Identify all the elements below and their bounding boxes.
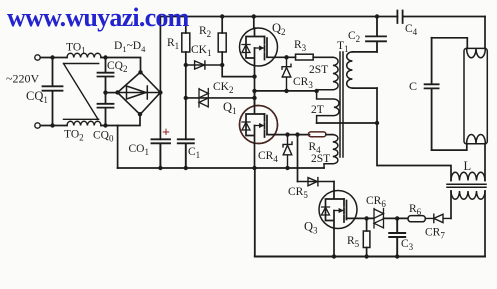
inductor TO1 bbox=[67, 53, 101, 57]
fluorescent tube bbox=[464, 48, 487, 143]
diode CK1 bbox=[186, 64, 222, 66]
winding 2T bbox=[317, 91, 339, 123]
inductor L core bbox=[447, 184, 486, 187]
wire C4 to lamp bbox=[484, 17, 486, 49]
bridge node bottom bbox=[138, 112, 142, 116]
lamp filament bottom bbox=[467, 135, 486, 144]
svg-text:C4: C4 bbox=[405, 23, 418, 37]
diode CR5 bbox=[298, 181, 335, 183]
winding T1 primary bbox=[347, 52, 353, 88]
diac CR6 bbox=[374, 209, 384, 229]
capacitor C3 bbox=[389, 218, 405, 256]
node R5 top bbox=[364, 216, 368, 220]
node Q1 source bus bbox=[252, 166, 256, 170]
bridge rectifier D1~D4 bbox=[118, 72, 161, 115]
inductor L winding top bbox=[451, 172, 485, 180]
capacitor CQ0 bbox=[98, 93, 114, 126]
capacitor CQ2 bbox=[98, 58, 114, 93]
capacitor CO1 electrolytic bbox=[152, 139, 171, 168]
node CK1 left bbox=[184, 63, 188, 67]
wire R1 column bbox=[185, 65, 187, 139]
node winding tap bbox=[314, 89, 318, 93]
wire junction to output bbox=[377, 88, 451, 180]
wire Q3 drain bbox=[333, 182, 335, 191]
svg-text:L: L bbox=[464, 159, 472, 173]
zener CR3 bbox=[282, 57, 291, 91]
node CO1 bus bbox=[158, 166, 162, 170]
node CR3 bottom bbox=[284, 89, 288, 93]
svg-text:2ST: 2ST bbox=[311, 153, 330, 165]
wire Q2 source to midpoint bbox=[254, 66, 256, 106]
wire CR5 branch bbox=[297, 135, 299, 182]
wire bottom input bbox=[40, 125, 67, 127]
node Q2 gate bbox=[284, 55, 288, 59]
capacitor CQ1 bbox=[43, 58, 63, 126]
bridge node top bbox=[138, 70, 142, 74]
bridge node left bbox=[115, 90, 119, 94]
wire plus riser bbox=[159, 17, 161, 140]
wire 2T bottom crossing bbox=[317, 122, 377, 124]
svg-text:R2: R2 bbox=[199, 25, 211, 39]
svg-text:D1~D4: D1~D4 bbox=[114, 40, 146, 54]
svg-text:TO2: TO2 bbox=[64, 129, 84, 143]
wire top to bridge bbox=[101, 58, 141, 73]
svg-text:R3: R3 bbox=[294, 39, 307, 53]
mosfet Q1 bbox=[240, 106, 278, 144]
choke coupling link bbox=[64, 64, 99, 120]
resistor R1 bbox=[185, 17, 187, 34]
watermark www.wuyazi.com bbox=[7, 5, 189, 31]
node midpoint bbox=[252, 89, 256, 93]
zener CR4 bbox=[283, 135, 292, 168]
svg-text:CO1: CO1 bbox=[129, 143, 149, 157]
node CQ mid bbox=[103, 90, 107, 94]
node Q2 source bbox=[252, 74, 256, 78]
input terminal top bbox=[35, 55, 40, 60]
winding 2ST upper bbox=[317, 57, 338, 91]
wire top input bbox=[40, 57, 67, 59]
wire R4 to winding bbox=[326, 134, 333, 136]
mosfet Q2 bbox=[240, 28, 278, 66]
wire primary top lead bbox=[352, 51, 377, 53]
diac CK2 bbox=[186, 97, 255, 99]
wire Q3 gate line bbox=[347, 217, 408, 219]
node Q3 source rail bbox=[332, 254, 336, 258]
svg-text:C2: C2 bbox=[348, 30, 360, 44]
wire primary bottom lead bbox=[352, 87, 377, 89]
wire Q3 source bbox=[333, 228, 335, 256]
svg-text:+: + bbox=[162, 126, 170, 141]
wire C bottom to lamp bbox=[432, 144, 467, 150]
capacitor C1 bbox=[178, 139, 194, 168]
node CK1 right bbox=[220, 63, 224, 67]
transformer T1 core bbox=[340, 52, 343, 157]
wire ground bus bbox=[118, 167, 324, 169]
svg-text:Q2: Q2 bbox=[272, 21, 286, 37]
node CR4 top bbox=[285, 132, 289, 136]
wire Q1 source bbox=[254, 143, 256, 168]
inductor L winding bottom bbox=[451, 191, 485, 199]
diode CR7 bbox=[425, 214, 451, 222]
capacitor C resonant bbox=[425, 38, 439, 150]
node CR5 branch top bbox=[295, 132, 299, 136]
svg-text:C3: C3 bbox=[401, 238, 414, 252]
wire Q2 gate bbox=[267, 56, 296, 58]
resistor R6 bbox=[408, 216, 426, 222]
wire L bottom-left to CR7 bbox=[450, 191, 452, 218]
node CK2 right bbox=[252, 96, 256, 100]
svg-text:CK1: CK1 bbox=[191, 44, 211, 58]
resistor R3 bbox=[296, 54, 314, 60]
svg-text:CK2: CK2 bbox=[213, 81, 233, 95]
wire top bus bbox=[160, 16, 397, 18]
node bottom CQ branch bbox=[103, 123, 107, 127]
input terminal bottom bbox=[35, 123, 40, 128]
node R5 rail bbox=[364, 254, 368, 258]
wire bottom to bridge bbox=[101, 115, 140, 126]
svg-text:Q3: Q3 bbox=[304, 220, 318, 236]
svg-text:CR6: CR6 bbox=[366, 195, 386, 209]
node C3 rail bbox=[395, 254, 399, 258]
node C2 top bbox=[375, 14, 379, 18]
lamp filament top bbox=[467, 48, 486, 57]
svg-text:C1: C1 bbox=[188, 146, 200, 160]
node top CQ2 branch bbox=[103, 55, 107, 59]
wire CQ to bridge left bbox=[106, 92, 118, 94]
mosfet Q3 bbox=[319, 191, 357, 229]
svg-text:2ST: 2ST bbox=[309, 64, 328, 76]
svg-text:CR4: CR4 bbox=[258, 150, 278, 164]
capacitor C4 bbox=[397, 11, 485, 24]
node top CQ1 bbox=[50, 55, 54, 59]
node bottom CQ1 bbox=[50, 123, 54, 127]
svg-text:CQ0: CQ0 bbox=[93, 130, 114, 144]
bridge node right bbox=[158, 90, 162, 94]
resistor R5 bbox=[366, 218, 368, 231]
winding 2ST lower bbox=[324, 135, 338, 168]
wire Q2 drain bbox=[253, 17, 255, 29]
svg-text:R1: R1 bbox=[167, 37, 179, 51]
wire R3 to winding bbox=[313, 56, 333, 58]
node Q2 drain top bbox=[252, 14, 256, 18]
node C3 top bbox=[395, 216, 399, 220]
wire lamp bottom-right pin bbox=[484, 144, 486, 181]
node CR4 bus bbox=[285, 166, 289, 170]
svg-text:CR5: CR5 bbox=[288, 186, 308, 200]
svg-text:~220V: ~220V bbox=[6, 72, 39, 86]
wire midpoint line bbox=[255, 90, 317, 92]
svg-text:CR3: CR3 bbox=[293, 76, 313, 90]
inductor TO2 bbox=[67, 121, 101, 125]
node primary junction bbox=[375, 121, 379, 125]
wire ground riser to rail bbox=[254, 168, 256, 257]
wire Q1 drain bbox=[254, 91, 256, 106]
wire bottom rail bbox=[255, 256, 485, 258]
wire L bottom-right to rail bbox=[484, 191, 486, 257]
svg-text:CR7: CR7 bbox=[425, 227, 445, 241]
svg-text:Q1: Q1 bbox=[223, 100, 237, 116]
node CK2 left bbox=[184, 96, 188, 100]
svg-text:2T: 2T bbox=[311, 104, 324, 116]
wire bottom corner to ground bus bbox=[117, 126, 119, 169]
node R2 top bbox=[220, 14, 224, 18]
wire R2 to Q2 source bbox=[222, 65, 254, 77]
resistor R4 bbox=[308, 132, 326, 137]
svg-text:C: C bbox=[409, 79, 417, 93]
node C1 bus bbox=[184, 166, 188, 170]
wire Q1 gate bbox=[267, 134, 310, 136]
wire lamp top-left pin bbox=[432, 38, 468, 49]
resistor R2 bbox=[221, 17, 223, 34]
svg-text:R5: R5 bbox=[347, 235, 360, 249]
capacitor C2 bbox=[366, 17, 386, 52]
